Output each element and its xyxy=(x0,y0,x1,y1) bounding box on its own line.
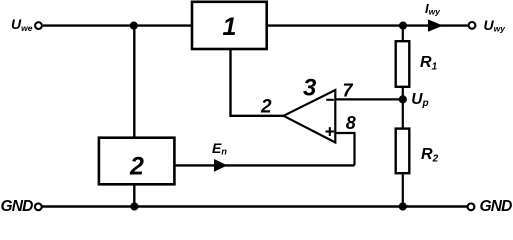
svg-text:Uwy: Uwy xyxy=(484,17,507,34)
svg-text:Uwe: Uwe xyxy=(11,16,33,33)
svg-text:3: 3 xyxy=(303,74,317,101)
resistor R2 xyxy=(396,129,410,174)
node top-right junction xyxy=(399,22,407,30)
svg-text:Iwy: Iwy xyxy=(425,1,441,17)
pin 7 wire xyxy=(335,98,403,100)
node top-left junction xyxy=(130,22,138,30)
bottom rail xyxy=(43,205,468,207)
svg-text:8: 8 xyxy=(346,113,356,133)
wire top rail left xyxy=(43,24,192,26)
svg-text:GND: GND xyxy=(480,198,513,212)
node Up xyxy=(399,95,407,103)
node bottom-right junction xyxy=(399,202,407,210)
terminal GND left xyxy=(35,203,42,210)
arrow En xyxy=(214,159,227,172)
terminal GND right xyxy=(468,203,475,210)
svg-text:2: 2 xyxy=(129,153,144,181)
svg-text:2: 2 xyxy=(260,96,272,117)
block 2 xyxy=(99,138,174,185)
node bottom-left junction xyxy=(130,202,138,210)
op-amp U3 xyxy=(284,90,336,143)
wire R1 to R2 xyxy=(402,87,404,129)
block 1 xyxy=(192,2,267,49)
svg-text:Up: Up xyxy=(411,91,428,109)
wire block2 bottom leg xyxy=(133,184,135,207)
svg-text:R1: R1 xyxy=(420,54,438,72)
wire En xyxy=(175,164,355,166)
resistor R1 xyxy=(396,41,410,87)
wire left leg to block 2 xyxy=(133,26,135,138)
svg-text:7: 7 xyxy=(343,80,354,100)
svg-text:R2: R2 xyxy=(421,146,439,164)
wire block1 bottom to op-amp input xyxy=(231,49,285,116)
svg-text:En: En xyxy=(212,140,227,157)
wire R2 to bottom rail xyxy=(402,173,404,207)
terminal Uwy xyxy=(469,22,476,29)
terminal Uwe xyxy=(35,22,42,29)
arrow Iwy xyxy=(428,19,443,31)
pin 8 wire xyxy=(335,133,354,165)
svg-text:1: 1 xyxy=(223,13,237,41)
svg-text:GND: GND xyxy=(1,198,34,212)
wire right column top xyxy=(402,26,404,41)
wire top rail right xyxy=(266,24,469,26)
